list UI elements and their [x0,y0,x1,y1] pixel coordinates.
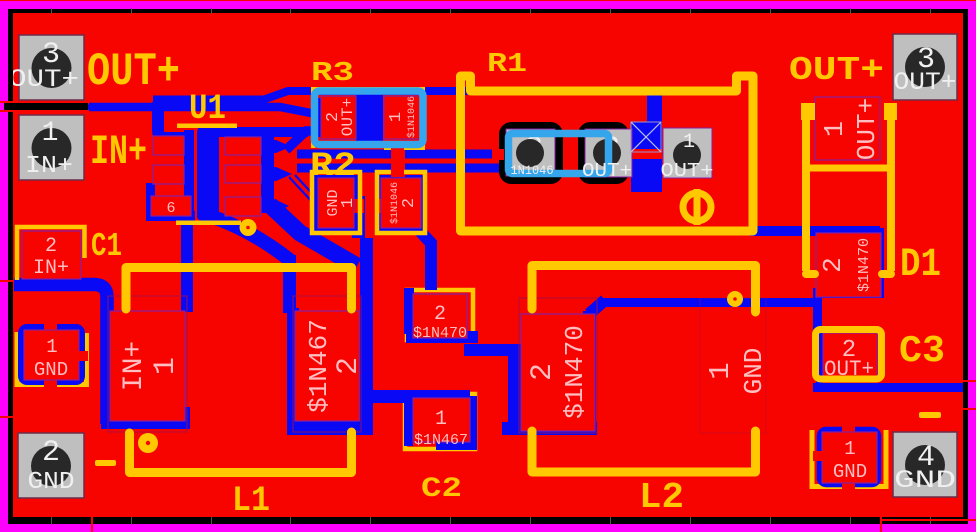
wire L2 pad2 right vertical [583,311,596,435]
wire U1 bar-top to row1 horizontal [198,127,308,137]
svg-text:1: 1 [46,336,57,358]
resistor R1 pad 1 pad square [663,128,712,178]
connector GND right silk [812,430,886,487]
hole pad 1 IN+ [32,128,72,168]
hole R1 pad 3 [516,139,544,167]
svg-text:OUT+: OUT+ [852,98,882,160]
wire net OUT+ upper horizontal trace T2 [153,91,654,130]
svg-text:C1: C1 [91,228,122,265]
svg-text:GND: GND [739,348,769,395]
wire pad6 left wrap [146,183,155,219]
resistor R1 pad 2 pad square [585,129,632,177]
svg-text:GND: GND [34,359,68,381]
svg-text:2: 2 [526,363,560,381]
svg-text:GND: GND [894,466,956,495]
svg-text:1: 1 [821,121,851,137]
svg-text:L2: L2 [639,477,684,518]
connector pad 1 IN+ [19,115,84,180]
polarity bar [694,189,701,225]
wire R2 pad2 descender to C2 [418,229,431,290]
U1 pad left row2 [153,165,184,184]
hole pad 2 GND [31,446,71,486]
wire U1 left vertical bus [184,130,194,217]
svg-text:$1N467: $1N467 [304,319,334,413]
connector pad 4 GND bottom-right [893,432,957,497]
capacitor C1 pad 2 [22,231,81,279]
hole pad 3 OUT+ top-right [905,47,945,87]
svg-text:OUT+: OUT+ [582,160,632,182]
polarity circle symbol [683,193,711,221]
wire U1 pin row1 thermal arrow [259,140,291,153]
wire GND ring right pad [820,430,878,484]
wire U1 pin row2 thermal arrow [259,167,292,181]
highlight box around R3 [315,91,424,145]
svg-text:2: 2 [42,436,60,470]
svg-text:OUT+: OUT+ [894,68,957,97]
wire R1 inner vertical into X [647,95,662,129]
inductor L2 silk outline [532,266,756,473]
svg-text:IN+: IN+ [25,153,73,180]
svg-text:OUT+: OUT+ [789,52,884,89]
minus sign near C3 [919,412,941,418]
node ratsnest X cross [631,122,661,152]
wire L1 pad2 bottom U-turn [287,421,368,435]
svg-text:2: 2 [332,357,366,375]
wire R2 GND pad right stub [352,196,365,238]
wire net IN+ top horizontal trace T1 [89,107,362,113]
capacitor C2 pad 2 [413,294,467,338]
wire U1 right pads connector strip [261,131,274,212]
hole pad 4 GND right [905,445,945,485]
node gaps in GND rings (red) [44,143,855,491]
wire U1 pin row3 thermal arrow [259,199,289,213]
U1 pad right row2 [225,165,261,183]
wire L1 pad1 bottom-right nub [177,407,190,422]
wire D1 pad2 right wrap [871,228,884,298]
connector GND pad right [822,432,877,483]
svg-text:$1N470: $1N470 [856,238,873,292]
svg-text:R3: R3 [311,59,354,89]
wire R3 middle fill [356,89,383,146]
svg-text:U1: U1 [189,89,226,129]
svg-text:2: 2 [45,235,57,258]
wire C2 pad1 entry [366,390,418,403]
resistor R3 pad 2 [321,96,356,139]
wire taper tips at R1 ring A [497,150,505,158]
wire trace to R1 pad upper [297,150,499,159]
svg-text:OUT+: OUT+ [9,65,79,94]
wire R1 blue fill left of pad C [631,122,662,192]
via center dots [246,226,250,230]
wire vertical to L1 pad2 top [283,255,296,313]
hole pad 3 OUT+ top-left [32,48,72,88]
node thermal column R3pad1-R2pad2 [391,143,405,177]
connector pad 2 GND bottom-left [18,433,84,498]
node thermal notch right GND ring [813,451,824,461]
inductor L1 pad 1 [110,311,185,421]
wire C2 pad1 top wrap [410,390,470,401]
node thermal spokes red [492,149,663,160]
wire T1 taper tip [83,103,92,111]
svg-text:GND: GND [833,461,867,483]
svg-text:$1N1046: $1N1046 [406,96,418,138]
node thermal column over silk R3-R2 [391,147,404,176]
diode D1 silk top stub left [801,103,815,120]
svg-text:OUT+: OUT+ [339,98,357,136]
capacitor C2 pad 1 [413,398,470,442]
wire R2 GND pad bottom wrap [316,224,365,234]
svg-text:C3: C3 [899,330,945,373]
wire row3 wide diagonal [270,205,357,266]
svg-text:$1N467: $1N467 [414,432,468,449]
connector pad 3 OUT+ top-left [19,35,84,100]
inductor L1 silk outline [126,268,352,473]
diode D1 silk bottom stubs [806,270,891,278]
wire D1 pad2 bottom wrap [814,288,884,298]
resistor R2 silk outline left cell [312,172,360,233]
svg-text:L1: L1 [232,481,270,521]
minus sign near L1 [95,460,116,466]
resistor R3 silk bottom edge right part [384,146,425,151]
wire U1 top-left corner drop [158,102,188,138]
wire pad6 bottom wrap [146,211,195,221]
node thermal notch left GND ring [75,351,88,361]
wire C2 pad2 bottom wrap [406,331,478,343]
resistor R2 silk outline right cell [377,172,425,233]
wire C2 pad1 left strip [404,396,413,446]
U1 pad right row3 [225,197,261,216]
svg-text:D1: D1 [900,243,941,288]
svg-text:1: 1 [844,438,855,460]
capacitor C1 pad 1 GND [24,330,79,380]
resistor R3 pad 1 [384,96,420,139]
resistor R2 pad 2 [381,178,421,228]
resistor R1 silk outline [461,76,754,231]
wire U1 central tab trace [197,127,219,221]
wire C2 pad1 right wrap [464,396,477,444]
svg-text:IN+: IN+ [90,128,147,176]
wire R3 pad1 right strip [419,98,424,137]
node thermal spoke R2 pad1 right [350,199,364,213]
node thermal spoke R2 pad2 left [373,199,385,213]
svg-text:C2: C2 [421,474,462,505]
svg-text:1: 1 [42,118,59,149]
wire R2 pad2 cell fill [378,175,424,234]
U1 pad left row1 [153,136,184,155]
U1 silk top bar [177,124,237,129]
svg-text:1: 1 [149,357,183,375]
highlight box around R1 pads [509,134,609,174]
wire L1 pad2 right vertical [360,238,373,435]
diode D1 silk sides [806,104,891,271]
svg-text:$1N470: $1N470 [560,325,590,419]
U1 silk bottom bar [176,221,241,226]
capacitor C2 pad1 silk box [405,394,475,449]
svg-text:R1: R1 [487,50,527,80]
wire R2 pad1 cell fill [313,175,359,234]
wire row1 diagonal up to R3 [286,131,360,150]
diode D1 pad 2 [816,233,881,297]
svg-text:1: 1 [387,112,406,122]
hole R1 pad 1 [673,141,701,169]
resistor R1 pad 3 pad square [506,129,555,176]
U1 pad right row1 [225,137,261,155]
svg-text:1: 1 [339,198,358,208]
diode D1 silk crossbar [806,165,891,172]
svg-text:1N1046: 1N1046 [511,164,554,178]
capacitor C1 GND pad silk [17,332,87,385]
svg-text:2: 2 [434,303,446,326]
U1 pad 6 [151,196,191,216]
svg-text:$1N470: $1N470 [413,325,467,342]
wire L1 pad1 bottom U-turn [101,418,190,429]
courtyard lines [108,296,766,433]
wire R2 pad2 bottom wrap [377,224,425,235]
wire U1 tab to via diagonal [210,216,291,261]
wire bottom trace under C3 to edge [813,383,964,392]
svg-text:OUT+: OUT+ [824,357,874,382]
wire trace to R1 pad lower [297,164,499,173]
connector pad 3 OUT+ top-right [893,34,957,100]
via near U1 [240,219,257,236]
svg-text:2: 2 [400,198,419,208]
wire R1 to D1 top trace [750,226,880,236]
via near L2 [727,291,743,307]
diode D1 pad 1 [815,97,880,160]
wire C2 pad2 left wrap [404,288,414,334]
wire L2 pad2 left vertical [508,344,522,432]
svg-text:1: 1 [435,408,447,431]
wire vertical left of C3 [813,288,822,336]
svg-text:1: 1 [683,131,695,154]
wire row2 thin diagonal pair [289,175,321,206]
resistor R1 pad 3 thermal black ring [505,128,558,179]
resistor R2 pad 1 GND [318,178,354,228]
wire C1 pad2 to L1 trace [14,285,107,425]
wire GND ring left pad [21,327,82,382]
svg-text:R2: R2 [310,148,356,186]
inductor L1 pad 2 [295,311,359,421]
capacitor C2 pad2 silk box [407,290,473,340]
wire L2 to via diagonal [589,300,605,314]
svg-text:OUT+: OUT+ [87,46,180,98]
resistor R3 silk outline [313,89,423,148]
svg-text:2: 2 [818,257,848,273]
wire via horizontal run to D1 [600,298,821,307]
wire L1 pad2 left edge strip [287,308,299,425]
wire L2 pad2 bottom U-turn [502,422,597,435]
capacitor C3 pad 2 [823,333,877,381]
wire R3 pad2 left strip [316,98,322,137]
via near L1 [138,433,158,453]
svg-text:IN+: IN+ [33,257,69,280]
node board-edge cut black band left [4,103,88,111]
wire C2 pad2 exit to L2 [464,344,514,356]
svg-text:6: 6 [166,200,175,217]
svg-text:GND: GND [28,469,75,496]
capacitor C3 silk outline [816,330,882,380]
wire C2 pad1 bottom wrap [436,438,477,450]
svg-text:IN+: IN+ [119,341,150,391]
svg-text:1: 1 [704,362,737,379]
resistor R1 pad 2 thermal black ring [584,128,624,179]
diode D1 silk top stub right [884,103,897,120]
svg-text:OUT+: OUT+ [661,160,714,182]
wire descender from U1 pad6 to L1 pad1 [181,214,193,312]
hole R1 pad 2 [593,139,621,167]
inductor L2 pad 2 [521,314,595,431]
capacitor C1 silk outline [17,227,85,280]
